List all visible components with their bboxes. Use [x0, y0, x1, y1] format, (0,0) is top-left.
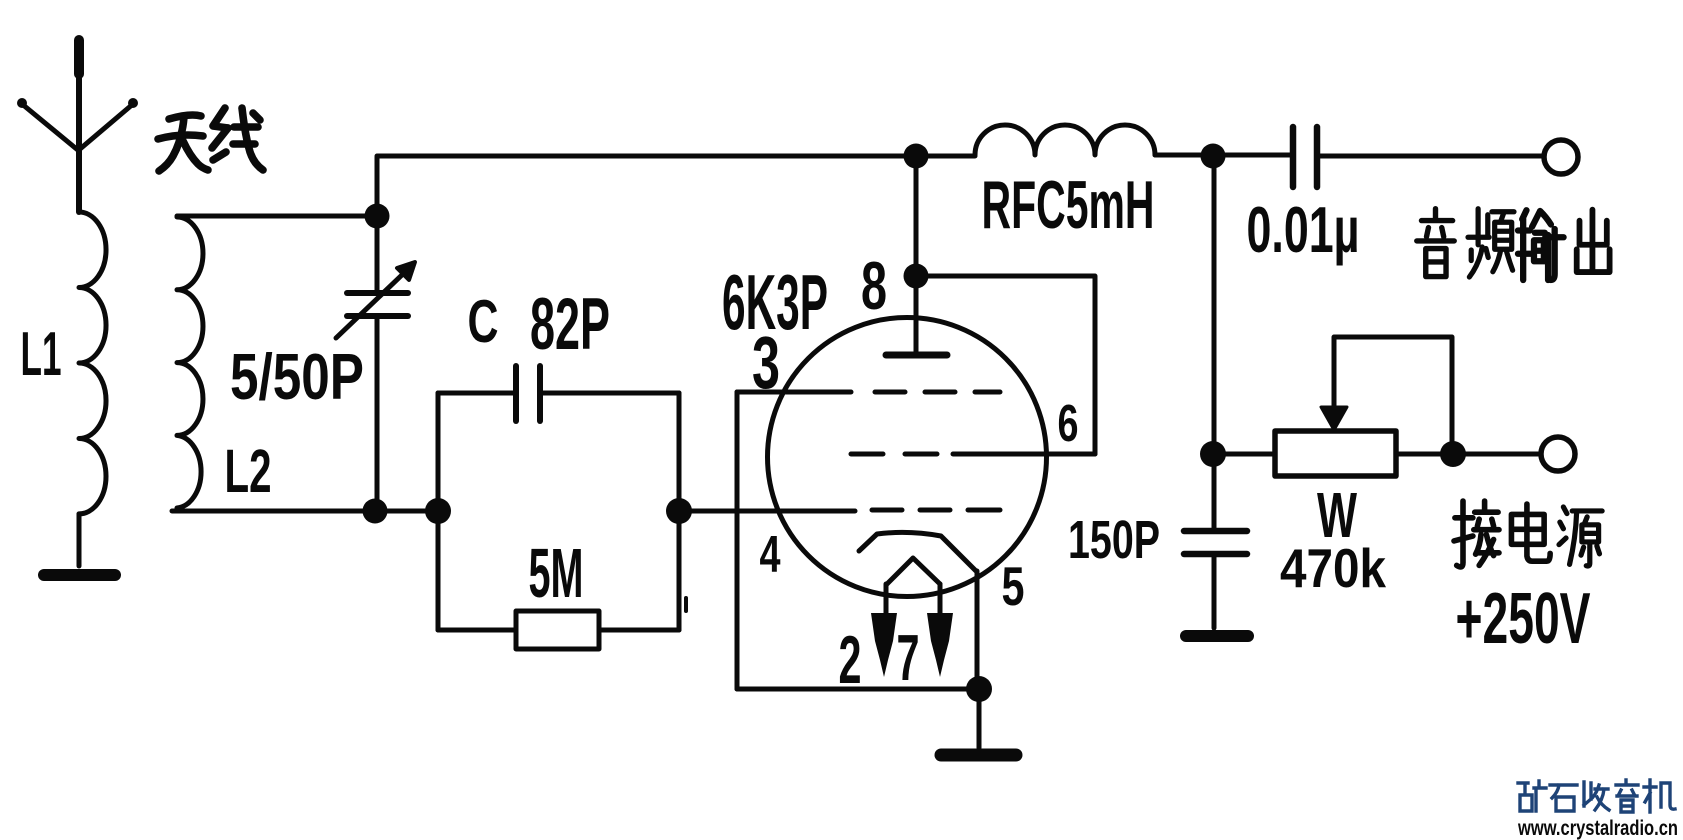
- svg-text:+250V: +250V: [1456, 579, 1591, 659]
- heater arrow pin 7: [927, 613, 953, 677]
- variable capacitor C1 5/50P: [336, 262, 415, 509]
- char 频: [1468, 209, 1514, 277]
- svg-text:6: 6: [1058, 395, 1079, 453]
- svg-text:2: 2: [839, 622, 862, 698]
- logo char 矿: [1518, 781, 1546, 811]
- terminal T2 power: [1541, 437, 1575, 471]
- node E junction dot (top rail): [904, 144, 929, 169]
- svg-text:3: 3: [752, 321, 780, 404]
- node D junction dot: [666, 498, 692, 524]
- logo char 石: [1550, 785, 1577, 811]
- node I junction dot (pot tap): [1200, 441, 1226, 467]
- logo char 音: [1616, 780, 1638, 812]
- svg-text:470k: 470k: [1280, 537, 1386, 599]
- heater arrow pin 2: [871, 613, 897, 677]
- potentiometer W 470k: [1214, 337, 1541, 476]
- svg-text:RFC5mH: RFC5mH: [982, 167, 1155, 243]
- svg-text:82P: 82P: [530, 284, 610, 365]
- wire grid bus to tube grid: [679, 509, 855, 514]
- antenna ANT: [17, 40, 138, 212]
- tube V1 6K3P envelope: [768, 318, 1047, 597]
- capacitor C3 150P: [1184, 531, 1247, 628]
- char 出: [1577, 210, 1610, 272]
- svg-text:C: C: [468, 288, 499, 355]
- node H junction dot: [1201, 144, 1226, 169]
- inductor L2: [177, 217, 203, 508]
- grid g2 dashed (pin 6, middle): [851, 452, 937, 457]
- ground GND1: [44, 569, 115, 581]
- ground GND2: [941, 749, 1016, 762]
- svg-text:0.01µ: 0.01µ: [1247, 193, 1360, 266]
- inductor RFC 5mH: [975, 125, 1155, 155]
- ground GND3: [1186, 630, 1248, 642]
- logo char 收: [1584, 782, 1609, 810]
- node A junction dot: [365, 204, 390, 229]
- node F junction dot (pin 8): [904, 264, 929, 289]
- svg-text:5M: 5M: [529, 534, 584, 612]
- svg-text:4: 4: [760, 526, 781, 584]
- node J junction dot: [1440, 441, 1466, 467]
- grid g1 dashed (pin 3, top): [737, 390, 851, 395]
- wire node A up to top rail: [375, 157, 380, 292]
- wire node H down: [1212, 157, 1217, 528]
- grid-leak network box: capacitor C 82P top branch: [438, 366, 679, 421]
- wire top rail left: [377, 154, 975, 159]
- svg-text:L2: L2: [225, 437, 272, 505]
- svg-text:7: 7: [897, 621, 920, 694]
- heater filament: [886, 558, 940, 585]
- grid-leak box right vertical: [677, 393, 682, 630]
- node G junction dot (cathode/ground): [966, 676, 992, 702]
- grid-leak box left vertical: [436, 393, 441, 630]
- wire L1 to ground: [77, 514, 82, 566]
- node C junction dot: [425, 498, 451, 524]
- node B junction dot (varcap bottom): [363, 499, 388, 524]
- wire RFC to node H: [1155, 153, 1290, 158]
- grid g3 dashed (pin 4, control grid): [872, 508, 1000, 513]
- inductor L1: [79, 212, 106, 514]
- pin 6 to pin 8 loop wire: [916, 276, 1095, 454]
- wire to ground: [977, 689, 982, 748]
- svg-text:8: 8: [861, 248, 887, 324]
- cathode K: [859, 532, 976, 571]
- svg-text:150P: 150P: [1068, 510, 1160, 570]
- char 音: [1417, 209, 1454, 277]
- cathode wire pin 5: [975, 571, 980, 689]
- wire plate to top rail: [914, 157, 919, 355]
- char 源: [1559, 507, 1602, 566]
- char 输: [1518, 210, 1564, 280]
- label 接电源 (to power supply): [1454, 501, 1602, 567]
- stray tick: [684, 598, 688, 611]
- logo char 机: [1644, 780, 1675, 812]
- svg-text:5: 5: [1002, 555, 1025, 617]
- label 天线 (antenna): [158, 108, 263, 171]
- wire grid bus y=511: [172, 509, 438, 514]
- label 音频输出 (audio output): [1417, 209, 1610, 280]
- cathode bottom wire: [737, 687, 980, 692]
- pin 3 wire down: [735, 392, 740, 689]
- capacitor C2 0.01u: [1293, 127, 1543, 187]
- svg-text:5/50P: 5/50P: [230, 340, 364, 413]
- resistor R1 5M bottom branch: [438, 611, 679, 649]
- char 接: [1454, 501, 1499, 567]
- char 电: [1511, 504, 1550, 561]
- wire L2 top to node A: [177, 214, 377, 219]
- watermark logo 矿石收音机: [1518, 780, 1675, 812]
- plate (anode): [886, 352, 947, 359]
- svg-text:L1: L1: [21, 320, 62, 389]
- svg-text:www.crystalradio.cn: www.crystalradio.cn: [1517, 817, 1678, 840]
- terminal T1 audio out: [1544, 140, 1578, 174]
